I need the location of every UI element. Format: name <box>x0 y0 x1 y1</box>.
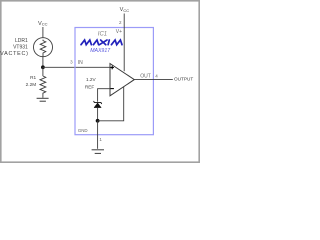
svg-text:REF: REF <box>85 85 95 90</box>
label R1 2.2M <box>26 75 37 87</box>
ground (main) <box>92 150 104 154</box>
wire diode anode to node B <box>97 108 99 121</box>
svg-text:(VACTEC): (VACTEC) <box>0 51 29 57</box>
label 1.2V REF <box>85 77 97 90</box>
svg-text:1.2V: 1.2V <box>86 77 97 82</box>
svg-text:VT931: VT931 <box>13 45 28 51</box>
Maxim logo <box>81 40 122 45</box>
node B junction dot <box>96 119 100 123</box>
svg-text:LDR1: LDR1 <box>15 38 28 44</box>
wire node A to comparator noninverting input (IN pin 3) <box>43 66 110 68</box>
svg-text:IC1: IC1 <box>98 31 107 37</box>
resistor R1 <box>40 76 46 98</box>
wire inverting input to reference diode <box>98 89 110 102</box>
svg-text:MAX917: MAX917 <box>90 48 111 54</box>
label LDR1 VT931 (VACTEC) <box>0 38 29 57</box>
svg-text:2.2M: 2.2M <box>26 82 37 87</box>
wire node B to comparator ground terminal <box>98 87 124 121</box>
wire VCC to V+ (pin 2) <box>123 14 125 72</box>
svg-text:OUT: OUT <box>140 73 151 79</box>
wire node A to R1 <box>42 67 44 76</box>
svg-text:IN: IN <box>78 60 83 66</box>
IC IC1 MAX917 package box <box>75 28 153 135</box>
node A junction dot <box>41 65 45 69</box>
ground below R1 <box>37 98 49 101</box>
svg-text:VCC: VCC <box>120 7 130 13</box>
wire comparator output OUT (pin 4) <box>134 79 173 81</box>
wire LDR1 to node A <box>42 57 44 68</box>
wire node B to GND pin 1 <box>97 121 99 149</box>
op-amp comparator inside IC1 <box>110 64 134 96</box>
zener diode 1.2V reference <box>94 101 102 108</box>
svg-text:OUTPUT: OUTPUT <box>174 76 193 81</box>
svg-text:VCC: VCC <box>38 21 48 27</box>
wire VCC to LDR1 top <box>42 27 44 38</box>
svg-text:V+: V+ <box>116 29 122 35</box>
svg-text:GND: GND <box>78 128 88 133</box>
photoresistor LDR1 <box>34 38 53 57</box>
svg-text:R1: R1 <box>30 75 36 80</box>
